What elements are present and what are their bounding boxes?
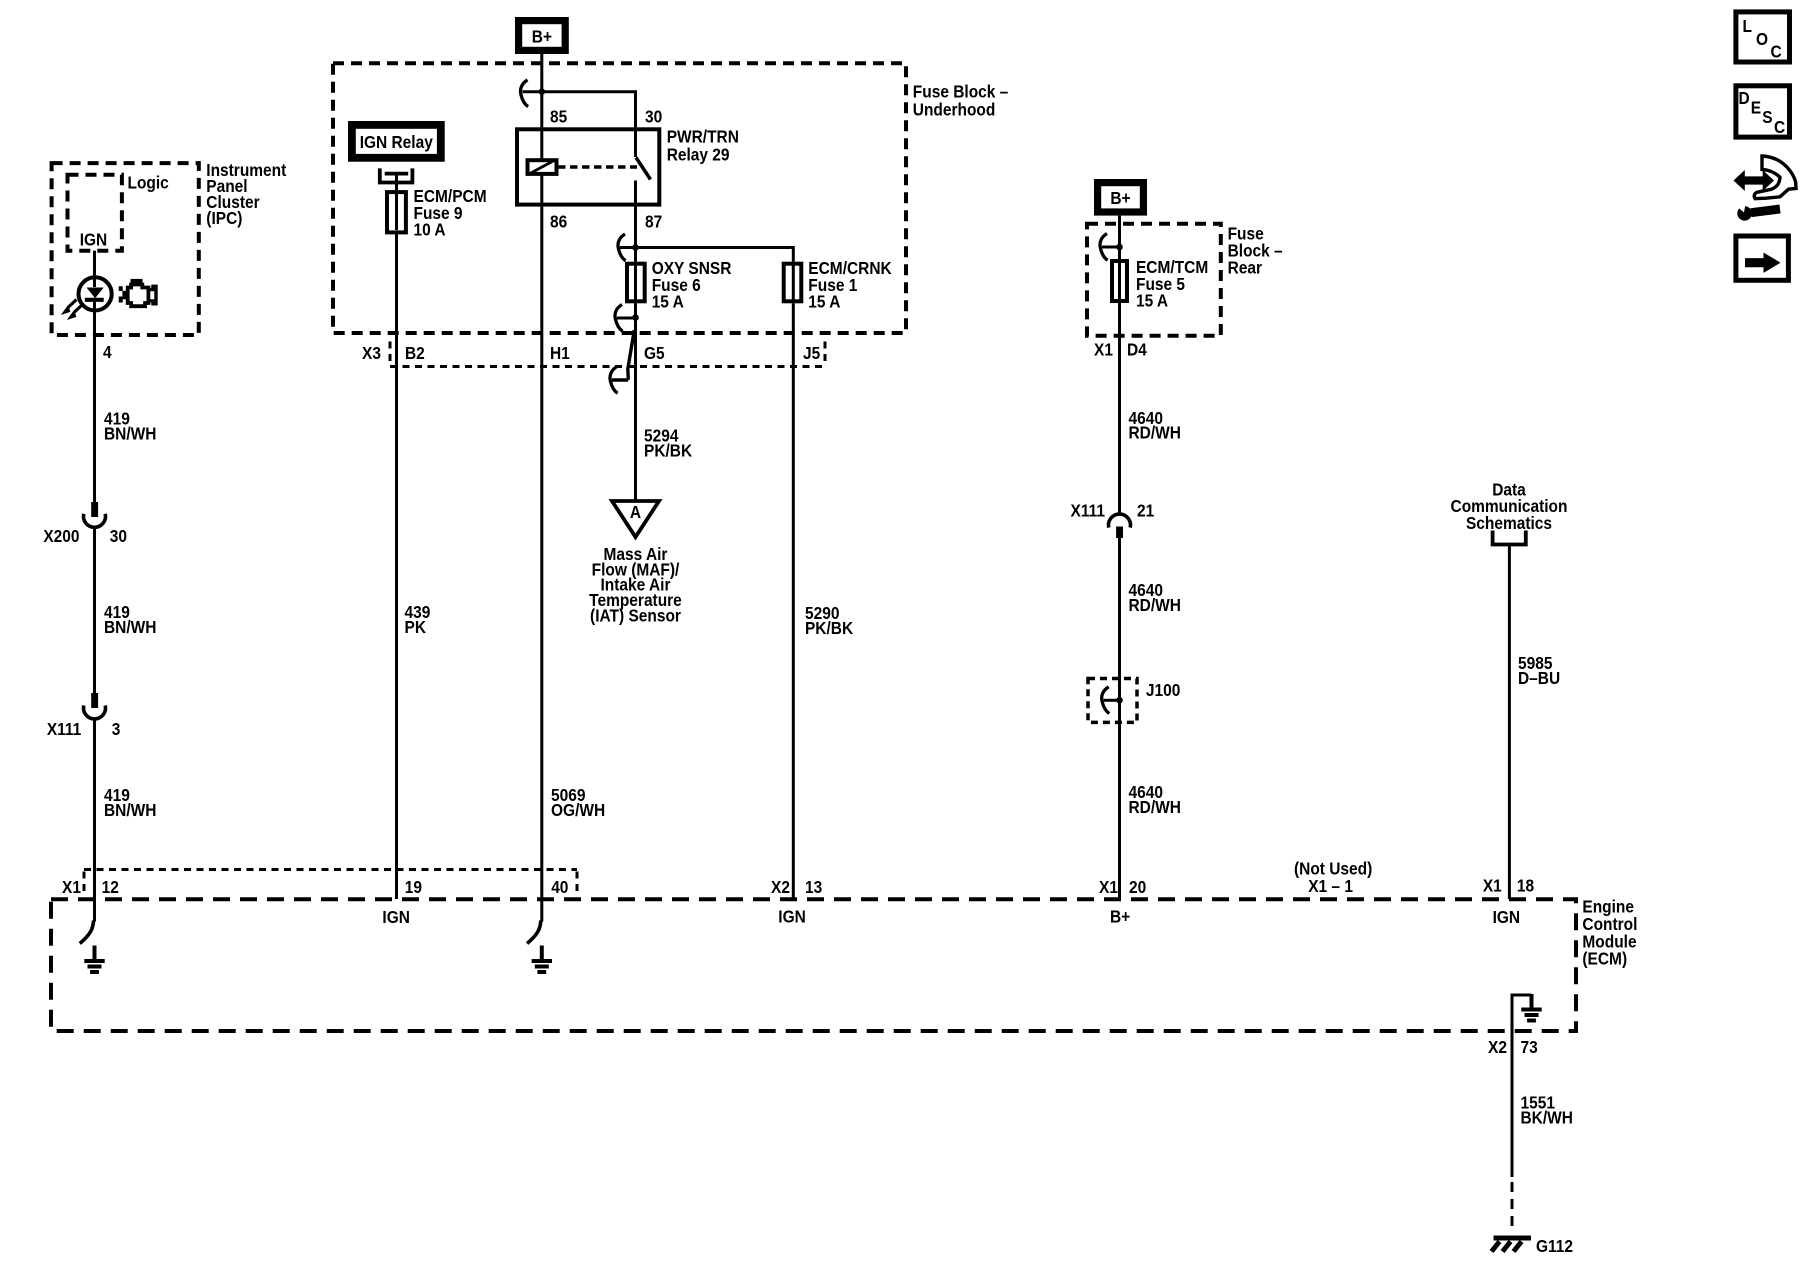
- svg-text:Schematics: Schematics: [1466, 513, 1552, 533]
- wire X200 to X111: [93, 527, 96, 693]
- engine icon (MIL pictograph): [121, 281, 156, 306]
- svg-text:18: 18: [1517, 876, 1534, 896]
- svg-text:(IAT) Sensor: (IAT) Sensor: [590, 605, 681, 625]
- svg-text:D: D: [1739, 88, 1750, 108]
- node splice to ECM/CRNK fuse: [632, 244, 639, 251]
- wire relay 87 to fuses: [634, 207, 637, 262]
- svg-text:12: 12: [102, 877, 119, 897]
- wire branch to relay pin 30: [523, 92, 636, 128]
- svg-text:87: 87: [645, 212, 662, 232]
- svg-text:86: 86: [550, 212, 567, 232]
- wire IPC pin 4 down: [93, 335, 96, 502]
- relay coil: [528, 127, 557, 206]
- wire fuse 1 to ECM pin 13 (5290 PK/BK): [792, 303, 795, 899]
- Logic dashed box: [68, 175, 122, 251]
- svg-text:B+: B+: [1110, 907, 1130, 927]
- svg-text:21: 21: [1137, 501, 1154, 521]
- svg-text:X111: X111: [47, 719, 81, 739]
- svg-text:(ECM): (ECM): [1582, 949, 1627, 969]
- wire B+ to fuse 5: [1118, 216, 1121, 259]
- svg-text:G112: G112: [1536, 1236, 1573, 1256]
- svg-text:(IPC): (IPC): [206, 208, 242, 228]
- fuse OXY SNSR Fuse 6 15A: [627, 264, 645, 302]
- wire ECM 73 to G112 (1551 BK/WH): [1511, 1031, 1514, 1177]
- connector X200 pin 30: [84, 502, 106, 527]
- svg-text:OG/WH: OG/WH: [551, 800, 605, 820]
- svg-text:15 A: 15 A: [808, 292, 840, 312]
- svg-text:IGN Relay: IGN Relay: [360, 132, 434, 152]
- ECM X1 connector line: [84, 868, 577, 871]
- svg-text:J100: J100: [1146, 680, 1180, 700]
- node A (MAF/IAT sensor pointer): [612, 501, 659, 537]
- relay switch: [634, 127, 637, 157]
- node splice to pin 30: [539, 88, 546, 95]
- forward nav box: [1736, 236, 1789, 280]
- svg-text:D4: D4: [1127, 340, 1148, 360]
- svg-text:BN/WH: BN/WH: [104, 424, 156, 444]
- ECM internal ground at pin 40: [527, 921, 552, 973]
- fuse block connector line: [390, 365, 825, 368]
- diagnostic arrows + wrench icon: [1734, 156, 1797, 221]
- LOC nav box: [1736, 12, 1790, 62]
- svg-text:B+: B+: [1110, 188, 1130, 208]
- svg-text:10 A: 10 A: [414, 220, 446, 240]
- svg-text:15 A: 15 A: [652, 292, 684, 312]
- svg-text:IGN: IGN: [80, 230, 108, 250]
- wire relay 86 down (5069 OG/WH): [540, 207, 543, 922]
- B+ power symbol (top): [515, 17, 569, 54]
- svg-text:85: 85: [550, 107, 567, 127]
- svg-text:IGN: IGN: [1493, 907, 1521, 927]
- Fuse Block - Underhood dashed box: [333, 63, 906, 333]
- Instrument Panel Cluster (IPC) dashed box: [52, 163, 199, 335]
- node splice (rear fuse feed): [1116, 244, 1123, 251]
- IGN Relay label box: [348, 121, 445, 162]
- svg-text:X2: X2: [1488, 1037, 1507, 1057]
- svg-text:X1: X1: [1099, 877, 1118, 897]
- svg-text:X1: X1: [1094, 340, 1113, 360]
- svg-text:30: 30: [645, 107, 662, 127]
- wire branch to fuse 1: [620, 248, 793, 262]
- svg-text:PK/BK: PK/BK: [644, 441, 692, 461]
- svg-text:30: 30: [110, 526, 127, 546]
- svg-text:Underhood: Underhood: [913, 100, 996, 120]
- svg-text:PK/BK: PK/BK: [805, 618, 853, 638]
- relay internal dashed link: [558, 165, 637, 169]
- svg-text:H1: H1: [550, 343, 570, 363]
- ECM internal ground at pin 73: [1512, 994, 1542, 1031]
- svg-text:Rear: Rear: [1228, 258, 1263, 278]
- svg-text:L: L: [1743, 16, 1752, 36]
- svg-text:19: 19: [405, 877, 422, 897]
- svg-text:X2: X2: [771, 877, 790, 897]
- connector X111 pin 3: [84, 693, 106, 719]
- svg-text:40: 40: [551, 877, 568, 897]
- Engine Control Module (ECM) dashed box: [51, 899, 1576, 1031]
- svg-text:IGN: IGN: [382, 907, 410, 927]
- svg-text:Fuse Block –: Fuse Block –: [913, 81, 1008, 101]
- svg-text:15 A: 15 A: [1136, 291, 1168, 311]
- svg-text:BN/WH: BN/WH: [104, 800, 156, 820]
- svg-text:BK/WH: BK/WH: [1520, 1108, 1572, 1128]
- ground G112: [1492, 1238, 1532, 1252]
- wire X111 to J100: [1118, 538, 1121, 899]
- svg-text:20: 20: [1129, 877, 1146, 897]
- svg-text:3: 3: [112, 719, 121, 739]
- svg-text:X1 – 1: X1 – 1: [1308, 876, 1353, 896]
- DESC nav box: [1736, 86, 1790, 138]
- svg-text:S: S: [1762, 107, 1772, 127]
- svg-text:RD/WH: RD/WH: [1129, 423, 1181, 443]
- svg-text:13: 13: [805, 877, 822, 897]
- fuse ECM/PCM Fuse 9 10A: [387, 192, 406, 232]
- svg-text:B2: B2: [405, 343, 425, 363]
- indicator LED (MIL): [65, 277, 112, 335]
- svg-text:J5: J5: [803, 343, 820, 363]
- svg-text:Relay 29: Relay 29: [667, 145, 730, 165]
- wire fuse 9 to ECM pin 19: [395, 234, 398, 899]
- B+ power symbol (right): [1094, 179, 1147, 216]
- svg-text:E: E: [1751, 98, 1761, 118]
- dashed wire to ground: [1511, 1182, 1514, 1233]
- wire X111 to ECM pin 12: [93, 719, 96, 922]
- svg-text:73: 73: [1520, 1037, 1537, 1057]
- wire IGN to LED: [93, 251, 96, 278]
- svg-text:X1: X1: [62, 877, 81, 897]
- svg-text:X200: X200: [43, 526, 79, 546]
- svg-text:X1: X1: [1483, 876, 1502, 896]
- reference bracket: [1493, 531, 1526, 545]
- Fuse Block - Rear dashed box: [1087, 224, 1221, 336]
- svg-text:4: 4: [103, 342, 112, 362]
- svg-text:Logic: Logic: [127, 173, 168, 193]
- node splice below fuse 6: [632, 314, 639, 321]
- svg-text:BN/WH: BN/WH: [104, 617, 156, 637]
- svg-text:B+: B+: [532, 27, 552, 47]
- fuse ECM/CRNK Fuse 1 15A: [784, 264, 802, 302]
- svg-text:A: A: [630, 502, 641, 522]
- splice J100: [1088, 679, 1137, 723]
- svg-text:X111: X111: [1071, 501, 1105, 521]
- fuse ECM/TCM Fuse 5 15A: [1112, 261, 1127, 301]
- svg-text:RD/WH: RD/WH: [1129, 797, 1181, 817]
- relay PWR/TRN Relay 29: [517, 129, 659, 204]
- connector X111 pin 21: [1109, 514, 1131, 538]
- wire B+ down to relay coil: [540, 54, 543, 127]
- ECM internal ground at pin 12: [80, 921, 105, 973]
- wire connector jog at G5: [628, 330, 635, 380]
- svg-text:PK: PK: [405, 617, 427, 637]
- svg-text:X3: X3: [362, 343, 381, 363]
- svg-text:G5: G5: [644, 343, 665, 363]
- svg-text:O: O: [1756, 29, 1768, 49]
- svg-text:RD/WH: RD/WH: [1129, 595, 1181, 615]
- wire fuse 6 down to MAF: [634, 303, 637, 501]
- svg-text:IGN: IGN: [778, 907, 806, 927]
- svg-text:C: C: [1771, 42, 1782, 62]
- svg-text:C: C: [1774, 117, 1785, 137]
- relay terminal bracket: [380, 168, 413, 190]
- wire to ECM pin 18 (5985 D-BU): [1508, 545, 1511, 900]
- svg-text:D–BU: D–BU: [1518, 668, 1560, 688]
- wire fuse 5 to X111: [1118, 303, 1121, 515]
